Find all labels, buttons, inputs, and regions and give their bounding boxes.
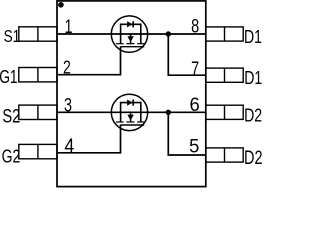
- Q1 segmented channel bars: [116, 43, 124, 45]
- wire pin4 to Q2 gate: [57, 125, 121, 153]
- svg-text:G1: G1: [0, 67, 18, 87]
- wire pin3 rail to pin6 (S2/D2 rail): [57, 111, 206, 113]
- transistor Q2 (bottom MOSFET): [111, 94, 147, 130]
- node junction2: [166, 110, 171, 115]
- Q1 body contact with N-channel arrow: [130, 34, 132, 44]
- svg-text:8: 8: [191, 14, 199, 37]
- wire pin1 rail to pin8 (S1/D1 rail): [57, 33, 206, 35]
- Q2 source contact stub: [120, 112, 122, 122]
- transistor Q1 (top MOSFET): [111, 16, 147, 52]
- svg-text:2: 2: [63, 56, 71, 77]
- pin box D2 (pin 5): [206, 148, 243, 162]
- Q1 source contact stub: [120, 34, 122, 44]
- pin box G1 (pin 2): [19, 68, 57, 82]
- Q1 gate electrode bar: [121, 46, 145, 48]
- svg-text:G2: G2: [2, 145, 21, 166]
- pin box S2 (pin 3): [19, 105, 57, 119]
- wire pin2 to Q1 gate: [57, 47, 121, 75]
- Q2 body contact with N-channel arrow: [130, 112, 132, 122]
- pin box D2 (pin 6): [206, 105, 243, 119]
- Q2 body diode: [127, 100, 133, 106]
- Q1 body diode branch wire: [121, 24, 141, 34]
- Q1 drain contact stub: [140, 34, 142, 44]
- Q2 body diode branch wire: [121, 103, 141, 113]
- svg-text:1: 1: [64, 15, 72, 38]
- svg-text:D1: D1: [244, 67, 262, 88]
- Q1 body diode: [127, 21, 133, 27]
- wire junction1 drop to pin7: [168, 34, 206, 75]
- svg-text:D2: D2: [244, 147, 262, 168]
- Q2 gate electrode bar: [121, 124, 145, 126]
- svg-text:7: 7: [191, 57, 199, 80]
- pin box S1 (pin 1): [19, 27, 57, 41]
- svg-text:6: 6: [190, 94, 200, 116]
- Q1 envelope circle: [111, 16, 147, 52]
- pin 1 indicator dot: [58, 2, 64, 8]
- svg-text:5: 5: [189, 135, 199, 157]
- pin box G2 (pin 4): [19, 144, 57, 158]
- pin box D1 (pin 8): [206, 27, 243, 41]
- svg-text:S2: S2: [2, 104, 20, 127]
- node junction1: [166, 31, 171, 36]
- Q2 envelope circle: [111, 94, 147, 130]
- svg-text:4: 4: [64, 136, 74, 158]
- svg-text:D1: D1: [244, 26, 262, 47]
- svg-text:S1: S1: [4, 28, 21, 47]
- wire junction2 drop to pin5: [168, 112, 206, 155]
- Q2 drain contact stub: [140, 112, 142, 122]
- svg-text:D2: D2: [244, 104, 262, 125]
- svg-text:3: 3: [64, 93, 72, 116]
- IC body U1: [57, 1, 206, 187]
- Q2 segmented channel bars: [116, 121, 124, 123]
- pin box D1 (pin 7): [206, 68, 243, 82]
